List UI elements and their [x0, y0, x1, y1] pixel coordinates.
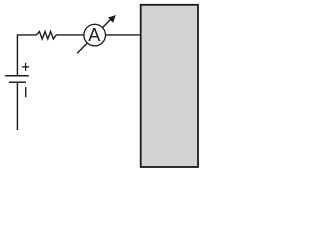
svg-text:A: A — [88, 25, 100, 45]
